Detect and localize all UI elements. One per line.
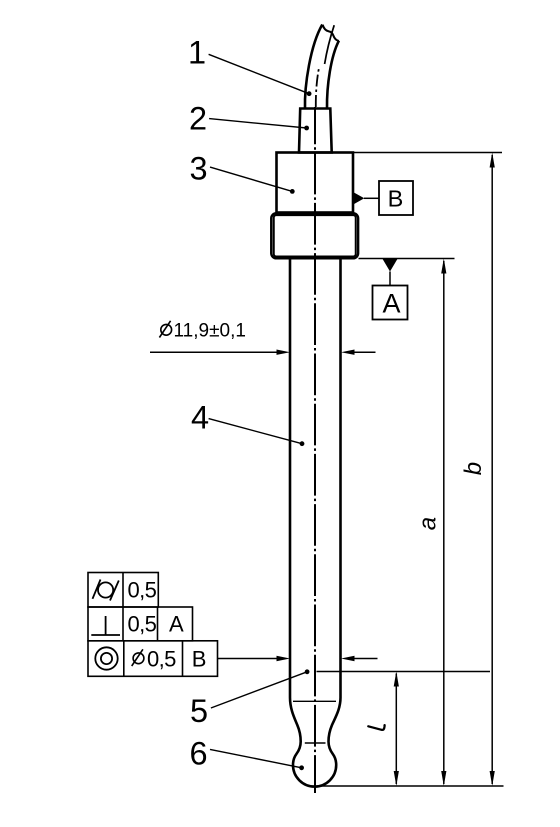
svg-text:11,9±0,1: 11,9±0,1	[174, 321, 246, 342]
svg-text:5: 5	[190, 693, 208, 729]
svg-text:b: b	[460, 462, 487, 475]
svg-text:B: B	[388, 185, 404, 211]
svg-text:0,5: 0,5	[128, 611, 157, 636]
svg-text:A: A	[169, 611, 184, 636]
svg-text:1: 1	[188, 34, 206, 70]
svg-text:2: 2	[189, 101, 207, 137]
svg-text:a: a	[415, 517, 442, 530]
svg-text:4: 4	[191, 399, 209, 435]
svg-text:6: 6	[190, 736, 208, 772]
svg-text:A: A	[382, 289, 400, 319]
svg-text:0,5: 0,5	[128, 578, 157, 603]
svg-text:0,5: 0,5	[147, 646, 176, 671]
svg-text:B: B	[192, 646, 206, 671]
svg-text:3: 3	[190, 151, 208, 187]
